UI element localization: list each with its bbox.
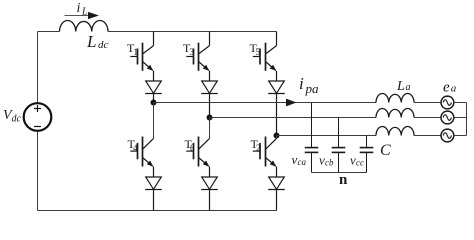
label vcb: [319, 152, 334, 167]
label vca: [292, 152, 307, 167]
svg-text:2: 2: [256, 143, 261, 153]
svg-text:dc: dc: [12, 114, 22, 125]
wire: leg3 mid: [276, 136, 278, 139]
label T1: [127, 41, 138, 57]
voltage source Vdc: [24, 103, 52, 131]
wire: ec to bus: [454, 135, 467, 137]
transistor T6 (IGBT): [186, 137, 209, 167]
diode D6 (series with T6): [201, 167, 218, 211]
svg-text:L: L: [396, 79, 405, 94]
ac source ea (phase a): [441, 96, 454, 109]
transistor T1 (IGBT): [130, 32, 153, 71]
label C: [380, 142, 391, 159]
node dot: leg2 / phase b: [207, 115, 213, 121]
wire: phase a right: [414, 102, 441, 104]
label n (neutral node): [339, 172, 348, 188]
svg-text:1: 1: [134, 47, 139, 57]
diode D3 (series with T3): [201, 71, 218, 118]
inductor Lb (phase b): [376, 108, 414, 117]
svg-text:6: 6: [190, 143, 195, 153]
wire: phase c right: [414, 135, 441, 137]
wire: phase b right: [414, 117, 441, 119]
svg-text:3: 3: [190, 47, 195, 57]
label T2: [251, 137, 261, 153]
wire: leg1 mid: [153, 103, 155, 139]
wire: bottom return bus: [38, 210, 277, 212]
diode D2 (series with T2): [268, 167, 285, 211]
label T3: [183, 41, 195, 57]
wire: left vertical upper: [37, 32, 39, 104]
inductor Ldc: [60, 20, 109, 31]
svg-text:L: L: [81, 7, 88, 18]
svg-text:5: 5: [256, 47, 261, 57]
wire: phase b: [210, 117, 377, 119]
diode D4 (series with T4): [145, 167, 162, 211]
node dot: leg1 / phase a: [151, 100, 157, 106]
svg-text:e: e: [443, 80, 450, 96]
svg-text:4: 4: [133, 143, 138, 153]
inductor La (phase a): [376, 93, 414, 102]
label ipa: [299, 74, 319, 96]
diode D5 (series with T5): [268, 71, 285, 136]
capacitor Cc: [360, 136, 374, 173]
label La: [396, 79, 411, 94]
label T5: [250, 41, 261, 57]
svg-text:L: L: [86, 32, 96, 51]
current arrow iL: [65, 12, 100, 19]
svg-text:ca: ca: [298, 157, 307, 167]
svg-text:cb: cb: [325, 158, 334, 168]
svg-text:C: C: [380, 142, 391, 159]
svg-text:i: i: [77, 1, 81, 16]
wire: right neutral bus: [466, 103, 468, 136]
wire: phase c: [277, 135, 377, 137]
capacitor Cb: [332, 118, 346, 173]
inductor Lc (phase c): [376, 126, 414, 135]
diode D1 (series with T1): [145, 71, 162, 103]
transistor T2 (IGBT): [253, 137, 277, 167]
label T6: [185, 137, 196, 153]
wire: capacitor neutral rail: [312, 172, 367, 174]
transistor T5 (IGBT): [253, 32, 277, 71]
wire: ea to bus: [454, 102, 467, 104]
label Vdc: [3, 108, 22, 125]
ac source eb (phase b): [441, 111, 454, 124]
current arrow ipa: [286, 99, 297, 107]
wire: leg2 mid: [209, 118, 211, 139]
svg-text:n: n: [339, 172, 348, 188]
label ea: [443, 80, 457, 96]
transistor T4 (IGBT): [130, 137, 153, 167]
svg-text:a: a: [406, 82, 411, 93]
wire: top-left horizontal segment: [38, 31, 60, 33]
wire: top dc bus: [108, 31, 277, 33]
label iL: [77, 1, 89, 18]
svg-text:cc: cc: [356, 158, 364, 168]
capacitor Ca: [305, 103, 319, 173]
label T4: [128, 137, 139, 153]
transistor T3 (IGBT): [186, 32, 209, 71]
wire: phase a: [154, 102, 377, 104]
svg-text:a: a: [451, 83, 457, 95]
svg-text:pa: pa: [305, 81, 320, 96]
wire: eb to bus: [454, 117, 467, 119]
svg-text:dc: dc: [98, 39, 109, 51]
svg-text:i: i: [299, 74, 304, 93]
label vcc: [350, 152, 364, 167]
node dot: leg3 / phase c: [274, 133, 280, 139]
wire: left vertical lower: [37, 131, 39, 211]
label Ldc: [86, 32, 109, 51]
ac source ec (phase c): [441, 129, 454, 142]
